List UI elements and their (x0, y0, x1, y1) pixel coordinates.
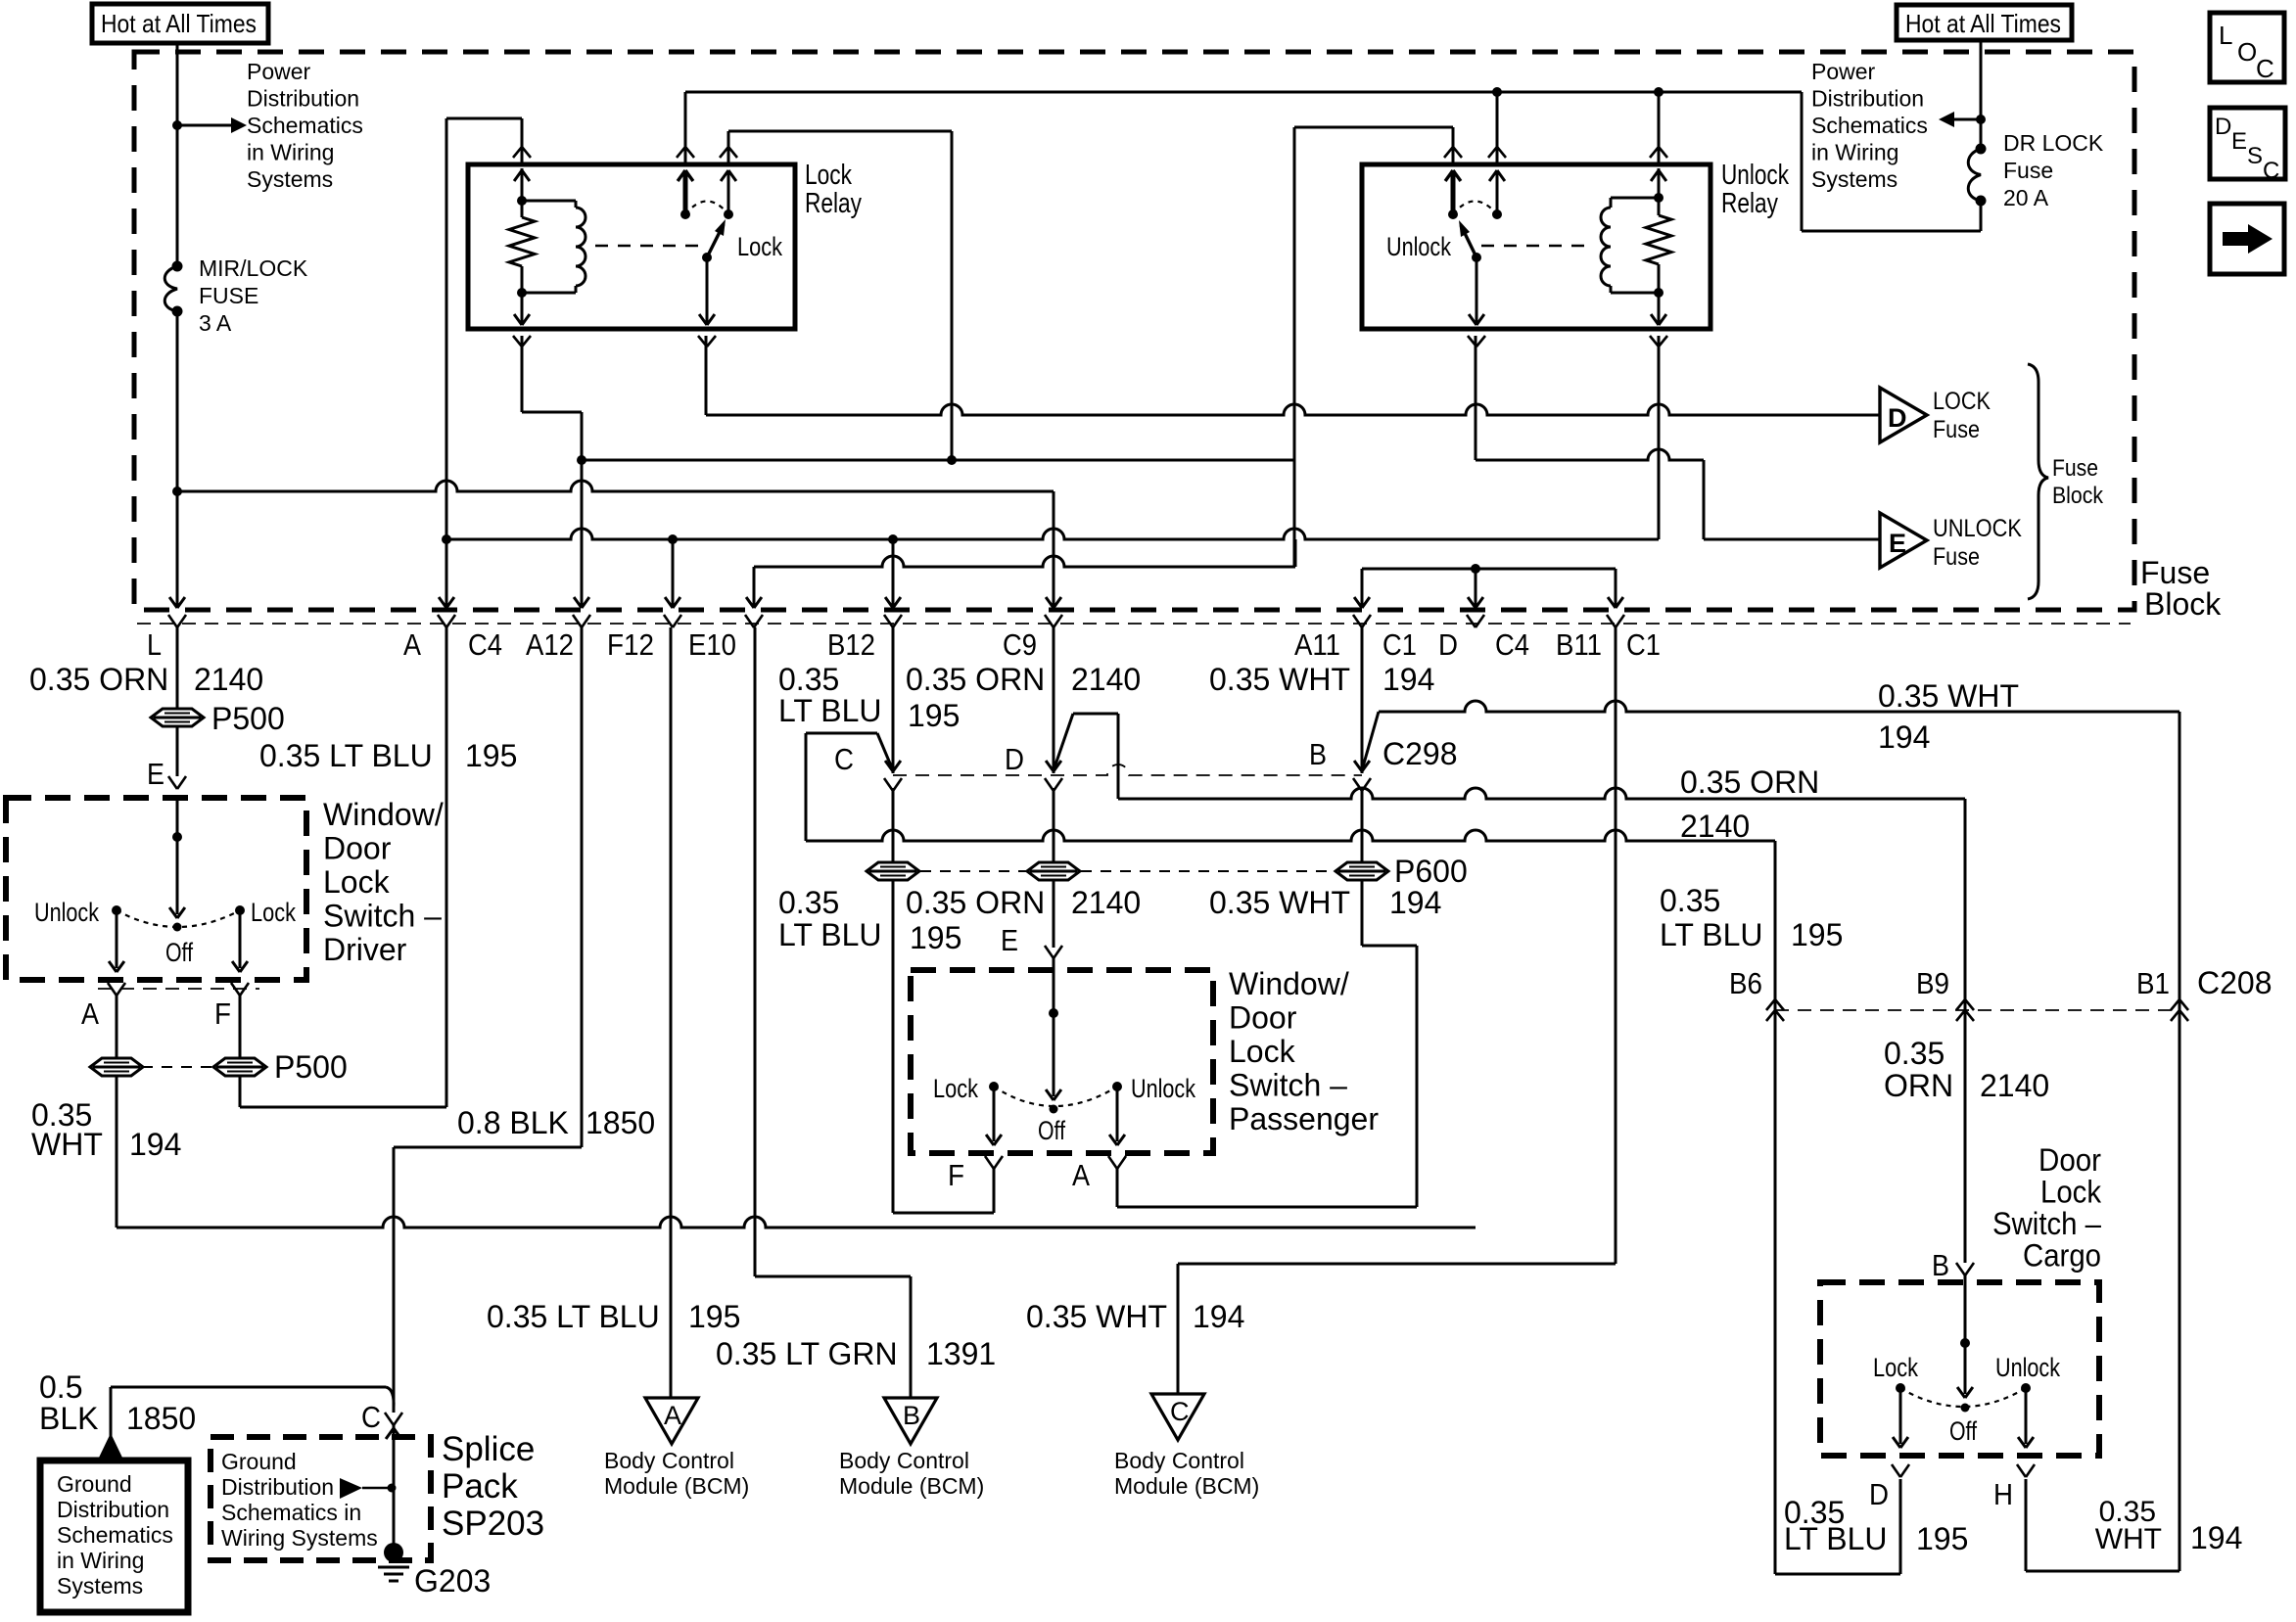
svg-text:L: L (2219, 21, 2232, 50)
svg-text:Unlock: Unlock (34, 898, 99, 927)
lock relay coil bottom internal arrow down (514, 293, 530, 325)
pin mark unlock relay switch output (1468, 336, 1485, 347)
label Off (cargo) (1949, 1416, 1977, 1446)
pin label A (403, 627, 421, 662)
svg-text:Unlock: Unlock (1995, 1353, 2060, 1382)
svg-text:Systems: Systems (247, 166, 333, 192)
label Body Control Module (BCM) B (839, 1448, 984, 1499)
wire B9 to cargo switch pin B (1964, 1010, 1967, 1263)
svg-text:195: 195 (465, 738, 517, 773)
node unlock relay switch pivot (1472, 253, 1481, 262)
svg-text:G203: G203 (414, 1563, 491, 1599)
svg-text:2140: 2140 (1071, 885, 1141, 920)
svg-text:C4: C4 (468, 627, 502, 662)
junction node at DR LOCK feed (1976, 115, 1986, 124)
svg-text:0.35 LT GRN: 0.35 LT GRN (716, 1336, 898, 1371)
node unlock relay right contact (1492, 209, 1502, 219)
reference arrow to Power Distribution Schematics (right) (1939, 112, 1981, 127)
label 0.35 / LT BLU (B6 wire) (1660, 883, 1763, 952)
pin label A11 (1294, 627, 1340, 662)
resistor lock relay internal (on x533) (509, 201, 535, 293)
fuse block dashed outline (134, 52, 2134, 610)
wire C4/B11 to BCM C (1178, 627, 1616, 1394)
label 0.35 ORN (L wire) (29, 662, 168, 697)
inductor lock relay coil (bumps right) (522, 201, 586, 293)
svg-text:194: 194 (2190, 1520, 2242, 1555)
svg-text:C9: C9 (1003, 627, 1037, 662)
ground symbol G203 (378, 1567, 409, 1581)
svg-text:0.35 WHT: 0.35 WHT (1209, 662, 1350, 697)
svg-text:0.35 ORN: 0.35 ORN (1680, 765, 1819, 800)
node driver switch lock contact (235, 905, 245, 915)
label 195 (passenger F wire) (910, 920, 961, 955)
svg-text:Fuse: Fuse (1933, 416, 1980, 443)
junction dot to unlock relay right contact (1492, 87, 1502, 97)
wire B12 to C298 pin C (885, 627, 901, 773)
svg-text:A: A (1072, 1158, 1090, 1192)
brace Fuse Block (inner) (2028, 364, 2048, 599)
wire A11 through P600 (1361, 788, 1364, 862)
svg-text:Ground: Ground (57, 1471, 132, 1497)
node passenger switch unlock contact (1112, 1082, 1122, 1091)
svg-text:Distribution: Distribution (247, 86, 359, 112)
connector pin marks at fuse block bottom (168, 615, 1624, 627)
node lock relay switch pivot (702, 253, 712, 262)
svg-text:Block: Block (2052, 483, 2104, 509)
svg-text:B9: B9 (1916, 966, 1949, 1000)
svg-text:Systems: Systems (1811, 166, 1898, 192)
relay box Unlock Relay (1362, 164, 1710, 329)
node lock relay right contact (724, 209, 733, 219)
svg-text:2140: 2140 (1071, 662, 1141, 697)
svg-text:Systems: Systems (57, 1573, 143, 1599)
lock relay switch arm (points to Lock contact) (707, 219, 726, 257)
svg-text:Body Control: Body Control (839, 1448, 969, 1473)
label 194 (cargo H wire) (2190, 1520, 2242, 1555)
dashed contact arc lock relay (685, 202, 728, 215)
svg-text:Switch –: Switch – (1229, 1068, 1347, 1103)
svg-text:A: A (664, 1401, 681, 1430)
svg-text:E: E (147, 757, 164, 791)
svg-text:F: F (214, 996, 231, 1031)
svg-text:195: 195 (688, 1299, 740, 1334)
svg-text:E: E (1889, 529, 1906, 558)
label UNLOCK Fuse (1933, 515, 2022, 571)
svg-text:H: H (1993, 1477, 2013, 1511)
driver switch connector dashed line (98, 988, 259, 990)
svg-text:Relay: Relay (805, 188, 862, 219)
svg-text:Relay: Relay (1721, 188, 1778, 219)
svg-text:Lock: Lock (805, 160, 852, 191)
branch jog C298 pin B to WHT bus (1362, 712, 1379, 770)
pin mark unlock relay right contact (1488, 147, 1506, 158)
label 0.35 WHT (BCM C wire) (1026, 1299, 1167, 1334)
fuse output triangle E (UNLOCK Fuse) (1880, 513, 1927, 568)
pin label B11 (1556, 627, 1602, 662)
label 0.35 / LT BLU (B12 wire) (778, 662, 882, 728)
svg-text:Power: Power (247, 59, 311, 84)
svg-text:F12: F12 (607, 627, 654, 662)
note text Power Distribution Schematics in Wiring Systems (left) (247, 59, 363, 192)
reference arrow inside SP203 (340, 1478, 397, 1499)
wire H470 contact-common bus (582, 459, 1294, 462)
label Off (passenger) (1038, 1116, 1065, 1145)
pin label F (passenger) (948, 1158, 964, 1192)
junction dot H551 at F12 drop (668, 534, 678, 544)
svg-text:Door: Door (2038, 1142, 2101, 1178)
svg-text:C: C (2263, 158, 2279, 184)
label 194 (passenger A feed) (1389, 885, 1441, 920)
power label box "Hot at All Times" (right) (1897, 5, 2072, 40)
pin label C (splice pack) (361, 1400, 381, 1434)
svg-text:195: 195 (908, 698, 960, 733)
svg-text:Driver: Driver (323, 932, 407, 967)
label 0.35 / LT BLU (cargo D wire) (1784, 1495, 1888, 1556)
svg-text:Unlock: Unlock (1131, 1074, 1195, 1103)
unlock relay coil top internal arrow up (1651, 168, 1666, 198)
pin label E10 (688, 627, 736, 662)
label 194 (B1 wire) (1878, 719, 1930, 755)
wire MIR/LOCK fuse output down to pin L (169, 311, 185, 608)
label Lock (passenger) (933, 1074, 978, 1103)
label 195 (pin A wire) (465, 738, 517, 773)
svg-text:ORN: ORN (1884, 1068, 1953, 1103)
lock relay switch output arrow down (699, 257, 715, 325)
lock relay switch left contact arrow (thick) (678, 170, 693, 214)
svg-text:Lock: Lock (1229, 1034, 1296, 1069)
cargo switch common wire with arrow (1957, 1275, 1973, 1398)
svg-text:A12: A12 (526, 627, 574, 662)
svg-text:0.35 LT BLU: 0.35 LT BLU (487, 1299, 660, 1334)
label LOCK Fuse (1933, 388, 1991, 443)
wire A11 tie-bar H581 (1362, 568, 1616, 571)
pin label C (C298) (834, 742, 854, 776)
pin label C4 (left row) (468, 627, 502, 662)
svg-text:0.35: 0.35 (1660, 883, 1720, 918)
driver lock contact output arrow (232, 910, 248, 972)
svg-text:0.35 ORN: 0.35 ORN (906, 885, 1045, 920)
svg-text:Lock: Lock (1873, 1353, 1918, 1382)
wire WHT 194 bus to B1 (H727) (1379, 701, 2179, 1010)
driver unlock contact output arrow (109, 910, 124, 972)
pin marks A and F driver switch (108, 983, 249, 996)
svg-text:SP203: SP203 (442, 1505, 544, 1543)
label 195 (BCM A wire) (688, 1299, 740, 1334)
svg-text:Fuse: Fuse (2140, 555, 2210, 590)
wire C9 drop from ORN bus (1046, 491, 1061, 608)
note text Ground Distribution Schematics in Wiring Systems (in SP203) (221, 1449, 378, 1551)
wire E10 riser and LT GRN link H579 (746, 539, 1295, 608)
node passenger switch common (1049, 1008, 1058, 1018)
splice P500 on ORN wire (151, 709, 204, 726)
module triangle A Body Control Module (645, 1398, 698, 1444)
svg-text:C208: C208 (2197, 965, 2273, 1000)
label DR LOCK Fuse 20 A (2003, 130, 2104, 210)
svg-text:Switch –: Switch – (1992, 1206, 2101, 1241)
svg-text:2140: 2140 (1980, 1068, 2049, 1103)
label 2140 (B9 wire) (1680, 809, 1750, 844)
label Unlock (relay position) (1386, 232, 1451, 261)
svg-text:Module (BCM): Module (BCM) (839, 1473, 984, 1499)
label 0.35 WHT (B1 wire) (1878, 678, 2019, 714)
pin label E (driver switch) (147, 757, 164, 791)
pin label F (driver) (214, 996, 231, 1031)
label 2140 (passenger E wire) (1071, 885, 1141, 920)
lock relay switch right contact arrow (721, 170, 736, 214)
pin label B12 (827, 627, 875, 662)
dashed wiper arc driver switch (117, 910, 240, 927)
wire x594 down to pin C4/A12 (574, 460, 589, 608)
svg-text:Off: Off (165, 938, 193, 967)
svg-text:MIR/LOCK: MIR/LOCK (199, 255, 308, 281)
svg-text:194: 194 (1389, 885, 1441, 920)
note box Ground Distribution Schematics in Wiring Systems (left) (40, 1460, 188, 1612)
unlock relay coil bottom internal arrow down (1651, 293, 1666, 325)
passenger lock contact output arrow (986, 1087, 1002, 1145)
svg-text:Distribution: Distribution (221, 1474, 334, 1500)
svg-text:in Wiring: in Wiring (247, 140, 334, 165)
pin mark C splice pack (385, 1413, 402, 1425)
connector C298 dashed line (893, 765, 1362, 775)
wire driver F pin to P500 (239, 996, 242, 1059)
svg-text:LT BLU: LT BLU (778, 693, 882, 728)
svg-text:P600: P600 (1394, 854, 1468, 889)
wire C1/D pin drop (1468, 569, 1483, 608)
wire from right Hot at All Times down (1980, 40, 1983, 149)
svg-text:0.35 WHT: 0.35 WHT (1026, 1299, 1167, 1334)
junction node on left feed (172, 120, 182, 130)
label Fuse Block (at brace) (2052, 455, 2104, 509)
pin marks C298 (884, 778, 1371, 791)
label 194 (driver A wire) (129, 1127, 181, 1162)
svg-text:LT BLU: LT BLU (778, 917, 882, 952)
pin mark lock relay coil bottom (513, 336, 531, 347)
unlock relay switch left contact arrow (thick) (1445, 170, 1461, 214)
svg-text:195: 195 (1916, 1521, 1968, 1556)
svg-text:DR LOCK: DR LOCK (2003, 130, 2104, 156)
svg-text:E: E (2231, 128, 2247, 155)
svg-text:195: 195 (1791, 917, 1843, 952)
node passenger switch off contact (1050, 1105, 1058, 1114)
svg-text:D: D (1005, 742, 1024, 776)
fuse output triangle D (LOCK Fuse) (1880, 388, 1927, 442)
svg-text:D: D (1869, 1477, 1889, 1511)
wire C4/B11 pin drop (1608, 569, 1623, 608)
label 0.35 / LT BLU (passenger F wire) (778, 885, 882, 952)
driver switch common wire with arrow (169, 798, 185, 918)
svg-text:Off: Off (1038, 1116, 1065, 1145)
label 2140 (C9 wire) (1071, 662, 1141, 697)
wire WHT bus H1254 driver A to C1/D drop (117, 1217, 1476, 1228)
node unlock relay left contact (1448, 209, 1458, 219)
svg-text:D: D (1888, 403, 1907, 433)
label G203 (414, 1563, 491, 1599)
label 1850 (0.5 BLK wire) (126, 1401, 196, 1436)
unlock relay switch arm (points to Unlock contact) (1459, 220, 1476, 257)
LOC legend box (2210, 13, 2284, 83)
svg-text:194: 194 (129, 1127, 181, 1162)
svg-text:B12: B12 (827, 627, 875, 662)
pin mark lock relay switch output (698, 336, 716, 347)
pin marks F and A passenger switch (985, 1156, 1126, 1169)
wire LT BLU bus H551 (446, 529, 1659, 539)
svg-text:Module (BCM): Module (BCM) (604, 1473, 749, 1499)
pin label A (passenger) (1072, 1158, 1090, 1192)
junction dot H470 at x594 (577, 455, 586, 465)
svg-text:WHT: WHT (2095, 1523, 2162, 1555)
forward arrow legend box (2210, 204, 2284, 274)
inductor unlock relay coil (bumps left) (1601, 198, 1659, 293)
pin label E (passenger) (1001, 923, 1018, 957)
svg-text:Lock: Lock (251, 898, 296, 927)
label P600 (1394, 854, 1468, 889)
svg-text:1850: 1850 (126, 1401, 196, 1436)
reference arrow to Power Distribution Schematics (left) (177, 117, 247, 133)
pin marks C208 (double chevrons) (1766, 999, 2188, 1021)
wire splice pack internal with up arrow (386, 1424, 401, 1552)
node driver switch unlock contact (112, 905, 121, 915)
wire drop to unlock relay coil pin (1658, 92, 1661, 164)
svg-text:0.35 LT BLU: 0.35 LT BLU (259, 738, 433, 773)
svg-text:Unlock: Unlock (1721, 160, 1789, 191)
svg-text:Hot at All Times: Hot at All Times (101, 9, 257, 38)
label Lock (cargo) (1873, 1353, 1918, 1382)
svg-text:0.35 ORN: 0.35 ORN (906, 662, 1045, 697)
svg-text:Window/: Window/ (323, 797, 444, 832)
svg-text:Distribution: Distribution (57, 1497, 169, 1522)
pin label C9 (1003, 627, 1037, 662)
label P500 (driver feed) (211, 701, 285, 736)
node lock relay coil bottom (517, 288, 527, 298)
component dashed box Splice Pack SP203 (211, 1437, 431, 1560)
label MIR/LOCK FUSE 3 A (199, 255, 308, 336)
svg-text:Ground: Ground (221, 1449, 297, 1474)
svg-text:Door: Door (1229, 1000, 1297, 1036)
node cargo switch unlock contact (2021, 1383, 2031, 1393)
svg-text:D: D (1438, 627, 1458, 662)
svg-text:B6: B6 (1729, 966, 1762, 1000)
svg-text:C: C (361, 1400, 381, 1434)
label 0.35 / ORN (cargo B wire) (1884, 1036, 1953, 1103)
svg-text:in Wiring: in Wiring (57, 1548, 144, 1573)
junction dot H470 at x972 (947, 455, 957, 465)
cargo unlock contact output arrow (2018, 1388, 2034, 1448)
wire B1 to cargo switch H loop (2026, 1010, 2179, 1571)
wire lock relay right contact to cross wire y134 (728, 131, 952, 164)
svg-text:0.35: 0.35 (778, 662, 839, 697)
label P500 (driver outputs) (274, 1049, 348, 1085)
svg-text:C: C (2256, 54, 2274, 83)
wire E10 to BCM B (755, 627, 911, 1398)
label 2140 (cargo B wire) (1980, 1068, 2049, 1103)
node cargo switch common (1960, 1338, 1970, 1348)
svg-text:E10: E10 (688, 627, 736, 662)
svg-text:3 A: 3 A (199, 310, 232, 336)
label 195 (cargo D wire) (1916, 1521, 1968, 1556)
svg-text:WHT: WHT (31, 1127, 103, 1162)
label Lock Relay (805, 160, 862, 219)
pin label L (147, 627, 162, 662)
svg-text:20 A: 20 A (2003, 185, 2049, 210)
wire C9 to C298 pin D (1046, 627, 1061, 773)
passenger unlock contact output arrow (1109, 1087, 1125, 1145)
svg-text:A: A (403, 627, 421, 662)
svg-text:Window/: Window/ (1229, 966, 1349, 1001)
junction dot to unlock relay coil (1654, 87, 1663, 97)
component dashed box Door Lock Switch - Cargo (1820, 1282, 2099, 1456)
svg-text:Lock: Lock (323, 864, 391, 900)
svg-text:UNLOCK: UNLOCK (1933, 515, 2022, 542)
svg-text:Fuse: Fuse (2003, 158, 2053, 183)
svg-text:Passenger: Passenger (1229, 1101, 1379, 1136)
label Lock (relay position) (737, 232, 782, 261)
pin label F12 (607, 627, 654, 662)
node driver switch common (172, 832, 182, 842)
label 195 (B12 wire) (908, 698, 960, 733)
wire from left Hot at All Times into fuse block (176, 43, 179, 266)
svg-text:P500: P500 (274, 1049, 348, 1085)
dashed wiper arc cargo switch (1900, 1388, 2026, 1407)
svg-text:E: E (1001, 923, 1018, 957)
svg-text:C: C (1170, 1397, 1190, 1426)
relay box Lock Relay (468, 164, 795, 329)
wire x456 from lock coil top to pin A (439, 118, 522, 608)
label 1391 (BCM B wire) (926, 1336, 996, 1371)
svg-text:Lock: Lock (737, 232, 782, 261)
label Body Control Module (BCM) C (1114, 1448, 1259, 1499)
pin label C1 (first) (1382, 627, 1417, 662)
svg-text:0.35 WHT: 0.35 WHT (1209, 885, 1350, 920)
svg-text:1391: 1391 (926, 1336, 996, 1371)
pin label B (cargo) (1932, 1248, 1949, 1282)
junction dot feeding ORN bus (172, 487, 182, 496)
wire B12 through P600 (892, 788, 895, 862)
junction dot tie-bar at C1/D pin (1471, 564, 1480, 574)
svg-text:Unlock: Unlock (1386, 232, 1451, 261)
svg-text:0.35: 0.35 (778, 885, 839, 920)
svg-text:Splice: Splice (442, 1430, 535, 1468)
wire lock relay coil top pin entry (513, 118, 531, 164)
svg-text:C: C (834, 742, 854, 776)
wire P600 to passenger switch pin E (1053, 880, 1055, 948)
dashed actuation link lock relay (595, 245, 702, 247)
node cargo switch off contact (1961, 1404, 1970, 1413)
component dashed box Window/Door Lock Switch - Passenger (911, 970, 1213, 1153)
svg-text:in Wiring: in Wiring (1811, 140, 1898, 165)
svg-text:B: B (903, 1401, 920, 1430)
wire driver A pin to P500 (116, 996, 118, 1059)
wire ORN bus H502 from MIR/LOCK fuse (177, 481, 1054, 491)
wire lock switch output to LOCK fuse (H424) (706, 336, 1880, 415)
pin label D (cargo) (1869, 1477, 1889, 1511)
connector label C298 (1382, 736, 1458, 771)
passenger switch common wire with arrow (1046, 958, 1061, 1100)
svg-text:Cargo: Cargo (2023, 1238, 2101, 1274)
svg-text:Power: Power (1811, 59, 1876, 84)
node lock relay left contact (680, 209, 690, 219)
label Lock (driver) (251, 898, 296, 927)
label 195 (B6 wire) (1791, 917, 1843, 952)
pin mark B cargo switch (1956, 1263, 1974, 1275)
lock relay coil top internal arrow up (514, 168, 530, 201)
svg-text:C298: C298 (1382, 736, 1458, 771)
svg-text:P500: P500 (211, 701, 285, 736)
wire driver F to fuse block pin A jog (240, 627, 446, 1107)
svg-text:0.5: 0.5 (39, 1369, 82, 1405)
pin label A (driver) (81, 996, 99, 1031)
splice P600 row (867, 862, 1388, 880)
wire unlock relay left contact feed y130 (1294, 127, 1453, 164)
